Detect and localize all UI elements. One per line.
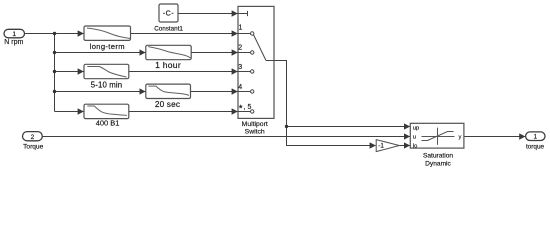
svg-text:5-10 min: 5-10 min [91, 81, 123, 90]
svg-text:, 5: , 5 [244, 104, 252, 111]
svg-text:u: u [413, 134, 416, 140]
svg-text:3: 3 [238, 64, 242, 71]
svg-text:1 hour: 1 hour [155, 60, 181, 70]
svg-text:y: y [459, 134, 462, 140]
svg-text:N rpm: N rpm [4, 39, 23, 46]
svg-text:Dynamic: Dynamic [425, 160, 451, 167]
svg-text:4: 4 [238, 84, 242, 91]
svg-text:up: up [413, 125, 419, 131]
svg-text:-1: -1 [378, 143, 384, 150]
svg-text:Multiport: Multiport [242, 121, 268, 128]
svg-text:400 B1: 400 B1 [96, 119, 120, 128]
svg-text:Switch: Switch [245, 129, 265, 136]
svg-text:lo: lo [413, 144, 418, 150]
svg-text:1: 1 [12, 31, 16, 38]
svg-text:-C-: -C- [163, 8, 174, 17]
svg-text:1: 1 [533, 134, 537, 141]
svg-text:torque: torque [526, 143, 545, 150]
svg-text:1: 1 [239, 25, 243, 32]
svg-text:2: 2 [31, 134, 35, 141]
svg-text:Saturation: Saturation [423, 153, 453, 160]
svg-text:2: 2 [238, 45, 242, 52]
svg-text:Torque: Torque [23, 143, 43, 150]
svg-text:long-term: long-term [90, 42, 125, 51]
svg-text:Constant1: Constant1 [154, 25, 183, 32]
svg-text:20 sec: 20 sec [155, 99, 180, 109]
